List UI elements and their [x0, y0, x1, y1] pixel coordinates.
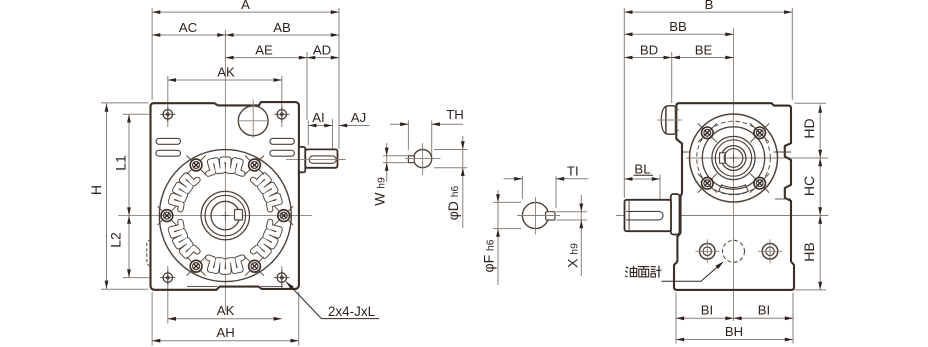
right view HD HB extensions [795, 103, 827, 290]
dimension H [88, 104, 108, 289]
dimension BH [676, 324, 793, 341]
cover bottom crescent slot [719, 185, 749, 194]
svg-text:H: H [88, 185, 104, 195]
output shaft inner circle [724, 149, 743, 168]
section1 extension lines [383, 121, 468, 168]
svg-text:AK: AK [217, 303, 235, 318]
oil level gauge leader [662, 262, 724, 282]
section2 dim phiF h6 [481, 190, 500, 285]
svg-text:2x4-JxL: 2x4-JxL [328, 304, 376, 319]
svg-text:L1: L1 [113, 155, 129, 171]
main horizontal centerline of left view [118, 215, 312, 217]
dimension BD [624, 42, 671, 59]
bottom relief inner line [187, 286, 283, 288]
dimension BB [624, 19, 733, 36]
dimension AJ [339, 110, 370, 128]
svg-text:L2: L2 [108, 232, 124, 248]
bearing cover circles [690, 114, 778, 202]
svg-text:BD: BD [640, 42, 658, 57]
worm shaft (front view) [305, 149, 337, 167]
section1 keyway [408, 156, 414, 163]
section2 crosshair [517, 197, 560, 235]
L1 top extension line [123, 113, 149, 115]
main vertical centerline of left view [224, 100, 226, 311]
dimension AC [152, 20, 225, 37]
dimension L2 [108, 216, 131, 278]
section1 worm shaft circle [414, 150, 432, 168]
worm shaft boss (side of body) [299, 147, 305, 173]
extension line shaft end x=339 for dims A AB AD AJ [338, 8, 340, 149]
oil drain plug right [758, 239, 782, 263]
svg-text:AK: AK [217, 65, 235, 80]
hidden dashed boss on left face [147, 239, 151, 267]
bolt circle dashed [697, 121, 771, 195]
section1 dim phiD h6 [445, 136, 465, 228]
H extension lines [101, 103, 149, 289]
section2 extension lines [493, 176, 587, 229]
oil fill plug left top [658, 106, 682, 134]
svg-text:AD: AD [313, 42, 331, 57]
large gear cover circle [159, 150, 291, 282]
AI AJ extension lines [308, 119, 332, 152]
extension line center x=225.4 for dims AC AB AE [224, 30, 226, 100]
worm shaft end chamfer line (side view) [628, 201, 630, 231]
dimension AK bottom [168, 303, 282, 321]
extension line x=307 for dims AE AD [306, 52, 308, 120]
worm shaft (side view) [625, 200, 672, 231]
section1 dim W h9 [372, 143, 389, 206]
svg-text:HB: HB [801, 242, 817, 261]
four bearing cover screws [698, 123, 769, 192]
oil drain plug left [695, 239, 719, 263]
svg-text:BI: BI [701, 303, 713, 318]
worm shaft centerline over shaft [300, 158, 344, 160]
corner mounting screw bottom-left [160, 270, 175, 285]
svg-text:BE: BE [695, 42, 713, 57]
L2 bottom extension line [123, 277, 149, 279]
dimension AB [225, 20, 339, 37]
svg-text:BH: BH [725, 324, 743, 339]
svg-text:AE: AE [255, 42, 273, 57]
right view extension lines top [624, 8, 792, 208]
bottom mounting screws centerlines / AK AH extensions [152, 266, 299, 346]
dimension BE [672, 42, 734, 59]
svg-text:B: B [705, 0, 714, 12]
dimension B [624, 0, 792, 14]
svg-text:BI: BI [758, 303, 770, 318]
dimension A [152, 0, 339, 14]
gearbox housing body outline (front view) [151, 102, 299, 290]
output bore keyway [235, 210, 243, 221]
gearbox housing body outline (side view) [674, 103, 794, 290]
output shaft keyway (side view) [720, 153, 726, 163]
dimension AH [152, 325, 299, 343]
section2 dim X h9 [564, 195, 583, 276]
svg-text:TH: TH [446, 107, 464, 122]
dimension BI right [734, 303, 794, 321]
right view vertical centerline [733, 28, 735, 321]
dimension HD [801, 105, 822, 159]
svg-text:HC: HC [801, 176, 817, 196]
dimension BL [624, 161, 660, 181]
worm shaft boss (side view) [671, 194, 680, 235]
svg-text:AJ: AJ [351, 110, 366, 125]
six cover screws on bolt circle [157, 156, 293, 276]
svg-text:HD: HD [801, 118, 817, 138]
section2 dim TI [504, 163, 589, 180]
leader 2x4-JxL [286, 282, 379, 319]
svg-text:BB: BB [669, 19, 687, 34]
corner mounting screw top-right [274, 107, 289, 122]
input shaft boss circle (front view) [238, 100, 270, 139]
oil level gauge label (yumenkei) [625, 266, 662, 278]
svg-text:AC: AC [179, 20, 198, 35]
section1 crosshair [405, 143, 441, 175]
dimension AE [225, 42, 307, 59]
dimension L1 [113, 114, 131, 215]
bearing cover center mark [730, 154, 738, 162]
svg-text:A: A [241, 0, 250, 12]
worm shaft centerline left view [286, 158, 346, 160]
bore center mark [221, 212, 229, 220]
top mounting screws centerlines / AK extensions [168, 76, 282, 127]
extension line left edge x=152 for dims A AC AH [151, 8, 153, 100]
dimension HC [801, 158, 822, 216]
corner mounting screw top-left [160, 107, 175, 122]
dimension HB [801, 216, 822, 290]
right view bottom extensions [676, 293, 793, 344]
oil level gauge dashed circle [723, 240, 745, 262]
svg-text:AB: AB [273, 20, 291, 35]
right view big circle horizontal centerline [686, 157, 828, 159]
dimension BI left [676, 303, 734, 321]
svg-text:TI: TI [567, 163, 579, 178]
worm shaft keyway (side view) [626, 211, 663, 220]
svg-text:AI: AI [312, 110, 324, 125]
section2 keyway [546, 212, 555, 220]
corner mounting screw bottom-right [274, 270, 289, 285]
casting parting lines [682, 152, 791, 199]
dimension AI [308, 110, 332, 128]
svg-text:AH: AH [216, 325, 234, 340]
dimension AD [307, 42, 339, 59]
cooling fin meander pattern [171, 160, 280, 272]
svg-text:BL: BL [634, 161, 650, 176]
worm shaft keyway slot [309, 156, 336, 163]
side vent slots [156, 138, 294, 156]
dimension AK top [168, 65, 282, 82]
section1 dim TH [390, 107, 464, 126]
right view worm shaft centerline [616, 215, 828, 217]
hub circles [201, 191, 249, 239]
section2 output shaft circle [522, 202, 548, 228]
